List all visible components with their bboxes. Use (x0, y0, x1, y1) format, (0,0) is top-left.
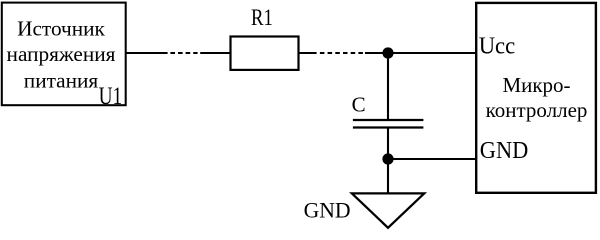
resistor R1 (231, 37, 299, 70)
wire: node B down to ground symbol (387, 159, 389, 194)
svg-text:Источник: Источник (17, 17, 105, 41)
wire: R1 to node A (solid then dashed then solid) (299, 52, 389, 54)
svg-text:GND: GND (480, 138, 529, 164)
node A: junction dot (382, 47, 393, 58)
wire: node A to Ucc pin of microcontroller (388, 52, 476, 54)
svg-text:Микро-: Микро- (502, 73, 570, 97)
svg-text:Ucc: Ucc (479, 34, 516, 60)
svg-text:U1: U1 (99, 83, 123, 110)
capacitor C (two plates) (353, 120, 424, 128)
block U1: voltage supply source box (2, 3, 126, 106)
wire: capacitor bottom plate to node B (387, 128, 389, 159)
wire: node A down to capacitor top plate (387, 53, 389, 120)
svg-text:напряжения: напряжения (7, 42, 116, 66)
svg-text:C: C (352, 93, 366, 117)
ground symbol (triangle) (352, 193, 424, 227)
svg-text:контроллер: контроллер (486, 98, 588, 122)
svg-text:GND: GND (304, 198, 351, 223)
svg-text:питания: питания (24, 69, 99, 93)
node B: junction dot (382, 153, 393, 164)
wire: node B to GND pin of microcontroller (388, 158, 476, 160)
svg-text:R1: R1 (251, 5, 273, 30)
block U2: microcontroller box (476, 3, 596, 193)
wire: U1 output to R1 (solid then dashed then solid) (126, 52, 232, 54)
